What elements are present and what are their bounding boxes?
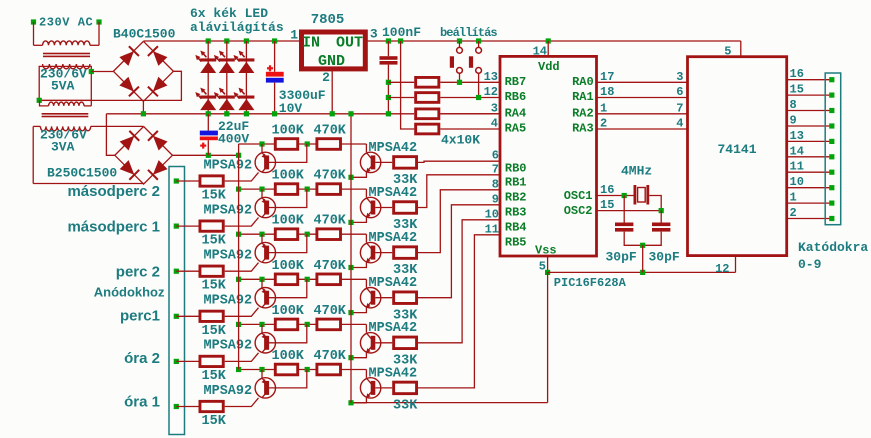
- svg-text:100K: 100K: [272, 259, 305, 274]
- svg-text:6: 6: [676, 85, 683, 99]
- svg-text:Vdd: Vdd: [538, 60, 560, 74]
- svg-text:10: 10: [790, 175, 804, 189]
- svg-text:15K: 15K: [202, 324, 227, 339]
- svg-text:RA0: RA0: [572, 75, 594, 89]
- svg-text:11: 11: [790, 160, 804, 174]
- svg-text:1: 1: [290, 27, 298, 42]
- svg-text:5: 5: [724, 45, 731, 59]
- svg-text:12: 12: [715, 262, 729, 276]
- svg-text:8: 8: [790, 98, 797, 112]
- svg-text:15K: 15K: [202, 234, 227, 249]
- svg-text:MPSA42: MPSA42: [369, 141, 418, 156]
- svg-text:5: 5: [539, 260, 546, 274]
- svg-text:MPSA92: MPSA92: [204, 384, 253, 399]
- svg-text:4: 4: [676, 117, 683, 131]
- svg-text:7: 7: [676, 101, 683, 115]
- svg-text:16: 16: [790, 67, 804, 81]
- svg-text:33K: 33K: [393, 399, 418, 414]
- svg-text:MPSA92: MPSA92: [204, 294, 253, 309]
- svg-text:GND: GND: [318, 53, 345, 70]
- svg-text:RA5: RA5: [505, 122, 527, 136]
- svg-text:MPSA92: MPSA92: [204, 158, 253, 173]
- svg-text:RB6: RB6: [505, 90, 527, 104]
- svg-text:óra 2: óra 2: [124, 350, 160, 367]
- svg-text:15: 15: [790, 83, 804, 97]
- svg-text:óra 1: óra 1: [124, 393, 160, 410]
- svg-text:RB0: RB0: [505, 162, 527, 176]
- svg-text:15K: 15K: [202, 189, 227, 204]
- svg-text:470K: 470K: [314, 169, 347, 184]
- svg-text:1: 1: [790, 191, 797, 205]
- svg-text:12: 12: [484, 85, 498, 99]
- svg-text:3: 3: [370, 26, 378, 41]
- svg-text:Anódokhoz: Anódokhoz: [94, 285, 165, 300]
- svg-text:100K: 100K: [272, 349, 305, 364]
- svg-text:7805: 7805: [311, 12, 345, 28]
- svg-text:RB4: RB4: [505, 220, 527, 234]
- svg-text:100K: 100K: [272, 169, 305, 184]
- svg-text:4: 4: [491, 117, 498, 131]
- svg-text:2: 2: [790, 206, 797, 220]
- svg-text:9: 9: [790, 114, 797, 128]
- svg-text:Vss: Vss: [535, 244, 557, 258]
- svg-text:OUT: OUT: [336, 35, 363, 52]
- svg-text:470K: 470K: [314, 214, 347, 229]
- svg-text:IN: IN: [302, 35, 320, 52]
- svg-text:0-9: 0-9: [798, 257, 822, 272]
- svg-text:4MHz: 4MHz: [621, 164, 652, 179]
- svg-text:470K: 470K: [314, 259, 347, 274]
- svg-text:RB2: RB2: [505, 190, 527, 204]
- svg-text:2: 2: [322, 70, 330, 85]
- svg-text:15K: 15K: [202, 414, 227, 429]
- svg-text:74141: 74141: [717, 142, 756, 157]
- svg-text:perc1: perc1: [120, 307, 160, 324]
- svg-text:PIC16F628A: PIC16F628A: [554, 276, 627, 290]
- svg-text:100K: 100K: [272, 124, 305, 139]
- svg-text:14: 14: [790, 144, 804, 158]
- svg-text:230V AC: 230V AC: [39, 16, 93, 30]
- svg-text:RB1: RB1: [505, 175, 527, 189]
- svg-text:OSC1: OSC1: [564, 189, 593, 203]
- svg-text:470K: 470K: [314, 304, 347, 319]
- svg-text:perc 2: perc 2: [116, 264, 160, 281]
- svg-text:RB5: RB5: [505, 235, 527, 249]
- svg-text:RB3: RB3: [505, 205, 527, 219]
- svg-text:10V: 10V: [279, 101, 303, 116]
- svg-text:alávilágítás: alávilágítás: [190, 20, 284, 35]
- svg-text:Katódokra: Katódokra: [798, 240, 868, 255]
- svg-text:5VA: 5VA: [51, 79, 75, 94]
- svg-text:RA2: RA2: [572, 107, 594, 121]
- svg-text:13: 13: [484, 70, 498, 84]
- svg-text:30pF: 30pF: [649, 250, 680, 265]
- svg-text:100K: 100K: [272, 214, 305, 229]
- svg-text:MPSA42: MPSA42: [369, 366, 418, 381]
- svg-text:30pF: 30pF: [606, 250, 637, 265]
- svg-text:MPSA42: MPSA42: [369, 276, 418, 291]
- svg-text:MPSA42: MPSA42: [369, 321, 418, 336]
- svg-text:beállítás: beállítás: [440, 26, 497, 40]
- svg-text:MPSA92: MPSA92: [204, 249, 253, 264]
- svg-text:4x10K: 4x10K: [441, 133, 480, 148]
- svg-text:RB7: RB7: [505, 75, 527, 89]
- svg-text:másodperc 2: másodperc 2: [67, 183, 160, 200]
- svg-text:MPSA92: MPSA92: [204, 339, 253, 354]
- svg-text:RA1: RA1: [572, 90, 594, 104]
- svg-text:RA4: RA4: [505, 107, 527, 121]
- svg-text:15K: 15K: [202, 369, 227, 384]
- svg-text:B40C1500: B40C1500: [113, 27, 176, 42]
- svg-text:100K: 100K: [272, 304, 305, 319]
- svg-text:MPSA42: MPSA42: [369, 231, 418, 246]
- svg-text:14: 14: [533, 45, 547, 59]
- svg-text:RA3: RA3: [572, 122, 594, 136]
- svg-text:15: 15: [600, 198, 614, 212]
- svg-text:13: 13: [790, 129, 804, 143]
- svg-text:MPSA92: MPSA92: [204, 203, 253, 218]
- svg-text:B250C1500: B250C1500: [47, 166, 117, 181]
- svg-text:OSC2: OSC2: [564, 204, 593, 218]
- svg-text:3: 3: [676, 70, 683, 84]
- svg-text:3: 3: [491, 101, 498, 115]
- svg-text:3VA: 3VA: [51, 140, 75, 155]
- svg-text:100nF: 100nF: [382, 25, 421, 40]
- svg-text:15K: 15K: [202, 279, 227, 294]
- svg-text:másodperc 1: másodperc 1: [67, 218, 160, 235]
- svg-text:470K: 470K: [314, 349, 347, 364]
- svg-text:470K: 470K: [314, 124, 347, 139]
- svg-text:MPSA42: MPSA42: [369, 186, 418, 201]
- svg-text:6x kék LED: 6x kék LED: [190, 6, 268, 21]
